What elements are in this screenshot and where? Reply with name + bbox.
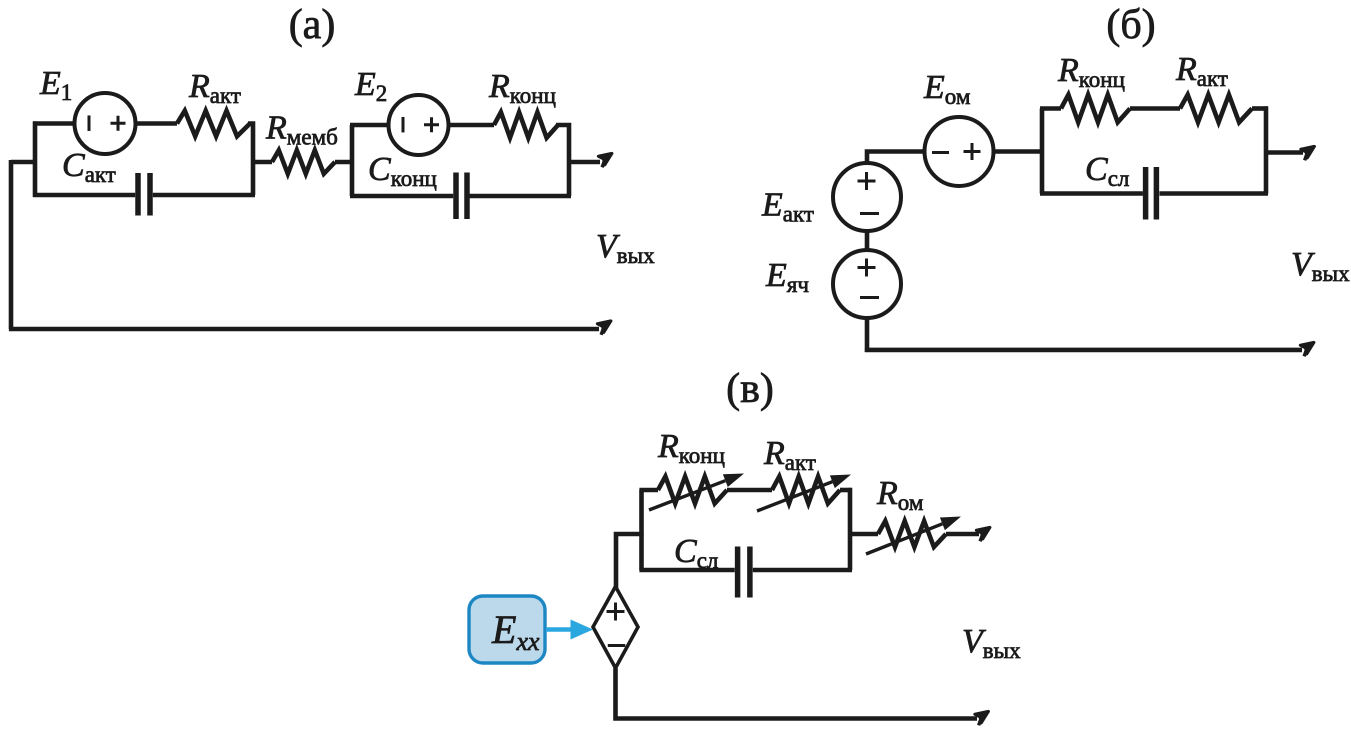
wire loop bottom-left (б) <box>1040 191 1143 196</box>
wire loop1 bottom-right <box>153 193 255 198</box>
variable resistor Rакт (в) <box>772 477 840 504</box>
variable resistor Rконц (в) <box>658 477 727 504</box>
wire Rом to output (в) <box>946 532 979 537</box>
wire loop1 top-left segment <box>33 121 75 126</box>
wire loop right side (в) <box>848 488 853 570</box>
capacitor Cконц <box>456 173 467 220</box>
output terminal arrow bottom (б) <box>1298 338 1317 356</box>
wire loop2 bottom-left <box>350 194 453 199</box>
output terminal arrow top (б) <box>1298 142 1317 160</box>
wire loop2 bottom-right <box>470 194 572 199</box>
voltage source E1 <box>75 93 136 154</box>
E2 minus terminal mark <box>402 117 405 133</box>
wire left rail vertical (a) <box>9 160 14 329</box>
resistor Rконц (б) <box>1061 95 1130 123</box>
wire loop to controlled source stub (в) <box>616 534 644 588</box>
wire loop2 top-left segment <box>350 123 389 128</box>
wire loop1 right side <box>248 124 253 196</box>
wire bottom rail (б) <box>865 348 1302 353</box>
Eакт minus terminal mark <box>860 212 879 215</box>
wire loop1 to Rмемб stub <box>253 160 272 165</box>
Rконц wiper arrow (в) <box>649 481 725 510</box>
control arrow Exx to U1 <box>546 627 572 632</box>
wire loop left side (в) <box>639 490 644 570</box>
variable resistor Rом (в) <box>878 521 946 547</box>
wire loop1 bottom-left <box>33 193 135 198</box>
output terminal arrow bottom (в) <box>972 707 991 725</box>
U1 plus terminal mark <box>607 603 625 621</box>
resistor Rконц (a) <box>494 112 558 138</box>
wire loop2 right side <box>556 125 569 196</box>
wire Eяч to bottom rail <box>865 318 870 352</box>
wire Eакт to Eяч <box>865 231 870 250</box>
wire Rмемб to loop2 <box>335 160 354 165</box>
wire U1 to bottom rail (в) <box>613 668 977 721</box>
E1 minus terminal mark <box>88 115 91 131</box>
wire loop2 left side <box>350 125 355 196</box>
resistor Rмемб <box>272 150 335 174</box>
capacitor Cсл (б) <box>1146 167 1157 220</box>
output terminal arrow bottom (a) <box>595 316 614 334</box>
wire Eакт to Eом corner <box>867 152 925 164</box>
Eяч minus terminal mark <box>860 296 879 299</box>
resistor Ракт <box>177 111 250 137</box>
Rакт wiper arrow (в) <box>757 482 832 511</box>
output terminal arrow top (a) <box>596 149 615 167</box>
svg-text:(в): (в) <box>726 366 774 412</box>
Eом minus terminal mark <box>932 151 949 154</box>
svg-text:(а): (а) <box>289 2 336 48</box>
wire E2 to Rконц <box>449 123 495 128</box>
svg-text:(б): (б) <box>1106 2 1155 48</box>
wire E1 to Ракт <box>136 121 178 126</box>
E2 plus terminal mark <box>424 117 439 132</box>
wire output stub (б) <box>1266 150 1303 155</box>
wire loop bottom-right (б) <box>1160 191 1269 196</box>
Eом plus terminal mark <box>964 143 981 160</box>
wire loop top-right segment (б) <box>1252 106 1268 111</box>
controlled source U1 diamond <box>593 587 638 669</box>
wire between Rконц and Rакт (в) <box>727 488 772 493</box>
voltage source Eом <box>925 117 994 186</box>
wire Eом to loop (б) <box>994 149 1045 154</box>
capacitor Cсл (в) <box>738 547 750 598</box>
wire loop top-right segment (в) <box>840 488 852 493</box>
wire between Rконц and Rакт (б) <box>1130 106 1180 111</box>
wire loop top-left segment (в) <box>639 488 658 493</box>
capacitor Cакт <box>138 173 150 216</box>
voltage source E2 <box>389 95 449 155</box>
voltage source Eяч <box>833 250 901 318</box>
wire output stub top (a) <box>569 160 600 165</box>
output terminal arrow top (в) <box>974 523 993 541</box>
wire bottom rail (a) <box>9 327 599 332</box>
Eяч plus terminal mark <box>858 259 876 277</box>
wire loop top-left segment (б) <box>1040 106 1061 111</box>
wire left rail stub (a) <box>11 160 35 165</box>
Rом wiper arrow (в) <box>866 524 942 554</box>
wire loop bottom-right (в) <box>753 568 852 573</box>
wire loop1 left side <box>33 121 38 197</box>
wire loop right side (б) <box>1264 106 1269 193</box>
resistor Rакт (б) <box>1180 95 1252 123</box>
U1 minus terminal mark <box>608 644 626 647</box>
voltage source Eакт <box>833 163 901 231</box>
wire loop bottom-left (в) <box>639 568 734 573</box>
wire loop left side (б) <box>1040 109 1045 194</box>
E1 plus terminal mark <box>111 116 126 131</box>
wire output stub (в) <box>850 532 878 537</box>
control block Exx <box>469 596 545 663</box>
Eакт plus terminal mark <box>858 172 876 190</box>
